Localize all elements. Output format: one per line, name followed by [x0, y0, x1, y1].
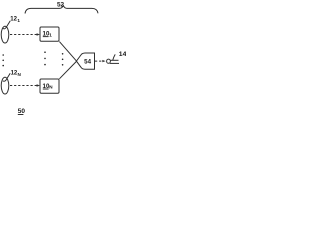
ellipsis dots between module boxes [44, 51, 46, 65]
leader for label 14 [113, 54, 116, 60]
arrowhead into 10_1 [37, 33, 40, 36]
dashed wire 12_N to 10_N [10, 85, 37, 87]
leader for label 12_1 [3, 21, 10, 29]
dashed output wire [95, 60, 103, 62]
module box 10_1 [40, 27, 59, 41]
svg-text:52: 52 [57, 1, 65, 8]
combiner 54 [76, 53, 94, 69]
brace 52 [25, 6, 98, 14]
antenna element 12_N [1, 77, 9, 94]
output element 14 [107, 59, 111, 63]
leader for label 12_N [3, 73, 10, 81]
svg-text:12N: 12N [11, 70, 22, 77]
svg-text:14: 14 [119, 51, 126, 58]
wire 10_1 to combiner [59, 42, 76, 61]
svg-text:54: 54 [84, 59, 91, 66]
dashed wire 12_1 to 10_1 [10, 34, 37, 36]
arrowhead to output element [102, 60, 105, 62]
svg-text:121: 121 [10, 17, 20, 24]
svg-text:1: 1 [49, 32, 52, 37]
arrowhead into 10_N [37, 84, 40, 87]
antenna element 12_1 [1, 26, 9, 43]
ellipsis dots between antennas [2, 54, 4, 66]
ellipsis dots between combiner input wires [62, 53, 64, 66]
wire 10_N to combiner [59, 62, 76, 79]
module box 10_N [40, 79, 59, 93]
